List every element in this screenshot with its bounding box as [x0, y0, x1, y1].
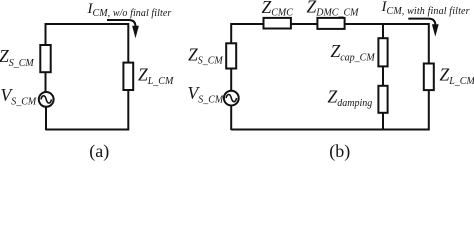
- wire: circuit (a) right vertical lower: [127, 90, 129, 131]
- resistor Z_L_CM (b): [424, 64, 434, 91]
- wire: circuit (b) right vertical upper: [428, 23, 430, 64]
- svg-text:VS_CM: VS_CM: [188, 83, 224, 105]
- svg-text:Zdamping: Zdamping: [328, 87, 373, 110]
- svg-text:ZDMC_CM: ZDMC_CM: [307, 0, 360, 19]
- svg-text:ZCMC: ZCMC: [262, 0, 294, 18]
- resistor Z_DMC_CM: [317, 18, 344, 29]
- svg-text:ICM, w/o final filter: ICM, w/o final filter: [87, 1, 172, 19]
- svg-text:Zcap_CM: Zcap_CM: [331, 41, 376, 64]
- resistor Z_cap_CM: [378, 38, 387, 66]
- wire: middle branch vertical lower: [382, 113, 384, 130]
- resistor Z_L_CM (a): [123, 63, 133, 90]
- svg-text:ZS_CM: ZS_CM: [188, 44, 223, 66]
- svg-text:ZL_CM: ZL_CM: [138, 65, 174, 88]
- svg-text:ICM, with final filter: ICM, with final filter: [381, 0, 470, 17]
- wire: circuit (a) left vertical upper: [45, 23, 47, 45]
- source V_S_CM (a): [39, 92, 54, 107]
- svg-text:(a): (a): [89, 141, 109, 161]
- wire: circuit (b) top horizontal segment 1: [231, 23, 264, 25]
- wire: circuit (b) bottom horizontal: [231, 129, 429, 131]
- resistor Z_damping: [378, 86, 387, 113]
- resistor Z_S_CM (a): [40, 45, 50, 72]
- svg-text:ZL_CM: ZL_CM: [440, 65, 474, 87]
- current arrow I_CM w/o final filter (a): [107, 20, 136, 27]
- current arrow I_CM with final filter (b): [408, 19, 435, 25]
- svg-text:VS_CM: VS_CM: [1, 85, 37, 108]
- wire: middle branch vertical upper: [382, 23, 384, 38]
- wire: circuit (b) left vertical upper: [230, 23, 232, 44]
- svg-text:ZS_CM: ZS_CM: [0, 46, 34, 69]
- wire: circuit (a) bottom horizontal: [46, 129, 129, 131]
- wire: circuit (b) top horizontal segment 3: [344, 23, 429, 25]
- svg-text:(b): (b): [329, 141, 350, 161]
- wire: circuit (b) left vertical middle: [230, 68, 232, 91]
- wire: middle branch vertical middle: [382, 66, 384, 85]
- source V_S_CM (b): [224, 91, 239, 106]
- arrowhead (a): [132, 26, 139, 39]
- wire: circuit (a) left vertical lower: [45, 107, 47, 130]
- wire: circuit (b) left vertical lower: [230, 106, 232, 130]
- resistor Z_CMC: [264, 18, 291, 29]
- resistor Z_S_CM (b): [226, 43, 236, 68]
- wire: circuit (b) right vertical lower: [428, 90, 430, 131]
- wire: circuit (a) top horizontal: [46, 23, 129, 25]
- wire: circuit (a) left vertical middle: [45, 72, 47, 92]
- wire: circuit (a) right vertical upper: [127, 23, 129, 63]
- arrowhead (b): [432, 24, 439, 36]
- wire: circuit (b) top horizontal segment 2: [291, 23, 319, 25]
